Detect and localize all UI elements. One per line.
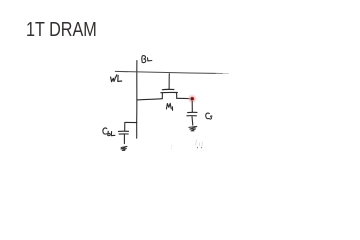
gate lead — [168, 74, 170, 89]
channel bar — [161, 91, 177, 93]
gate bar — [162, 88, 174, 90]
capacitor C_BL — [118, 131, 128, 143]
source lead — [161, 93, 163, 99]
label WL — [111, 75, 122, 82]
ground under C_BL — [121, 146, 127, 150]
wire WL horizontal — [115, 71, 216, 73]
wire source to BL — [137, 99, 162, 100]
wire BL vertical — [136, 61, 138, 139]
title — [26, 18, 97, 42]
label Cs — [206, 113, 212, 119]
wire BL to C_BL — [125, 122, 137, 130]
label BL — [142, 56, 152, 63]
label C_BL — [103, 128, 115, 136]
label M1 — [166, 103, 172, 110]
stray pencil marks — [172, 140, 203, 148]
ground under Cs — [189, 126, 197, 130]
node storage (red) — [187, 94, 197, 104]
wire drain to storage node — [177, 97, 190, 99]
capacitor Cs — [187, 112, 197, 125]
wire node to Cs — [191, 102, 193, 112]
transistor M1 — [161, 74, 177, 99]
drain lead — [176, 93, 178, 99]
